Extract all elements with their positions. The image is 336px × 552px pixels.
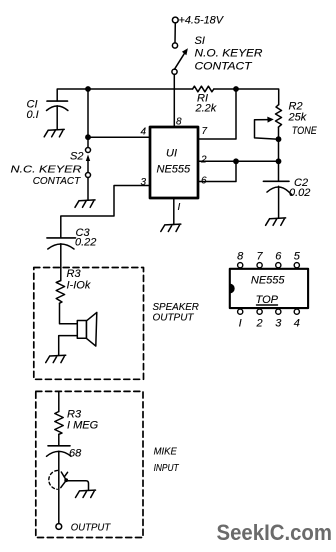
svg-text:CONTACT: CONTACT — [195, 61, 253, 73]
svg-text:NE555: NE555 — [251, 275, 286, 287]
svg-text:N.O. KEYER: N.O. KEYER — [195, 48, 263, 60]
svg-text:OUTPUT: OUTPUT — [71, 522, 112, 534]
svg-text:7: 7 — [257, 251, 264, 263]
svg-text:MIKE: MIKE — [154, 445, 178, 457]
svg-text:68: 68 — [69, 448, 82, 460]
svg-text:0.02: 0.02 — [289, 187, 310, 199]
svg-text:TONE: TONE — [292, 125, 318, 137]
svg-text:N.C. KEYER: N.C. KEYER — [11, 164, 82, 176]
svg-text:R3: R3 — [67, 268, 82, 280]
svg-text:5: 5 — [294, 251, 301, 263]
svg-text:2: 2 — [256, 318, 263, 330]
svg-text:25k: 25k — [288, 112, 307, 124]
svg-text:3: 3 — [275, 318, 282, 330]
svg-text:UI: UI — [166, 148, 177, 160]
svg-text:8: 8 — [237, 251, 244, 263]
svg-text:4: 4 — [141, 127, 147, 138]
svg-text:SI: SI — [195, 35, 205, 47]
svg-text:3: 3 — [141, 177, 147, 188]
svg-text:I: I — [178, 202, 181, 213]
svg-text:SeekIC.com: SeekIC.com — [217, 520, 333, 545]
svg-text:I: I — [239, 318, 242, 330]
svg-text:NE555: NE555 — [157, 164, 192, 176]
svg-text:I MEG: I MEG — [67, 420, 99, 432]
svg-text:0.I: 0.I — [27, 109, 39, 121]
svg-text:+4.5-18V: +4.5-18V — [179, 15, 225, 27]
svg-text:2.2k: 2.2k — [195, 103, 217, 115]
svg-text:I-IOk: I-IOk — [67, 280, 91, 292]
svg-text:S2: S2 — [70, 151, 83, 163]
svg-text:TOP: TOP — [256, 294, 279, 306]
svg-text:OUTPUT: OUTPUT — [153, 312, 195, 324]
svg-text:6: 6 — [275, 251, 282, 263]
svg-text:8: 8 — [176, 117, 182, 128]
svg-text:CONTACT: CONTACT — [33, 175, 82, 187]
svg-text:2: 2 — [200, 155, 207, 166]
svg-text:0.22: 0.22 — [75, 237, 96, 249]
svg-text:7: 7 — [202, 126, 208, 137]
svg-text:INPUT: INPUT — [154, 462, 180, 474]
svg-text:6: 6 — [201, 176, 207, 187]
svg-text:4: 4 — [294, 318, 300, 330]
